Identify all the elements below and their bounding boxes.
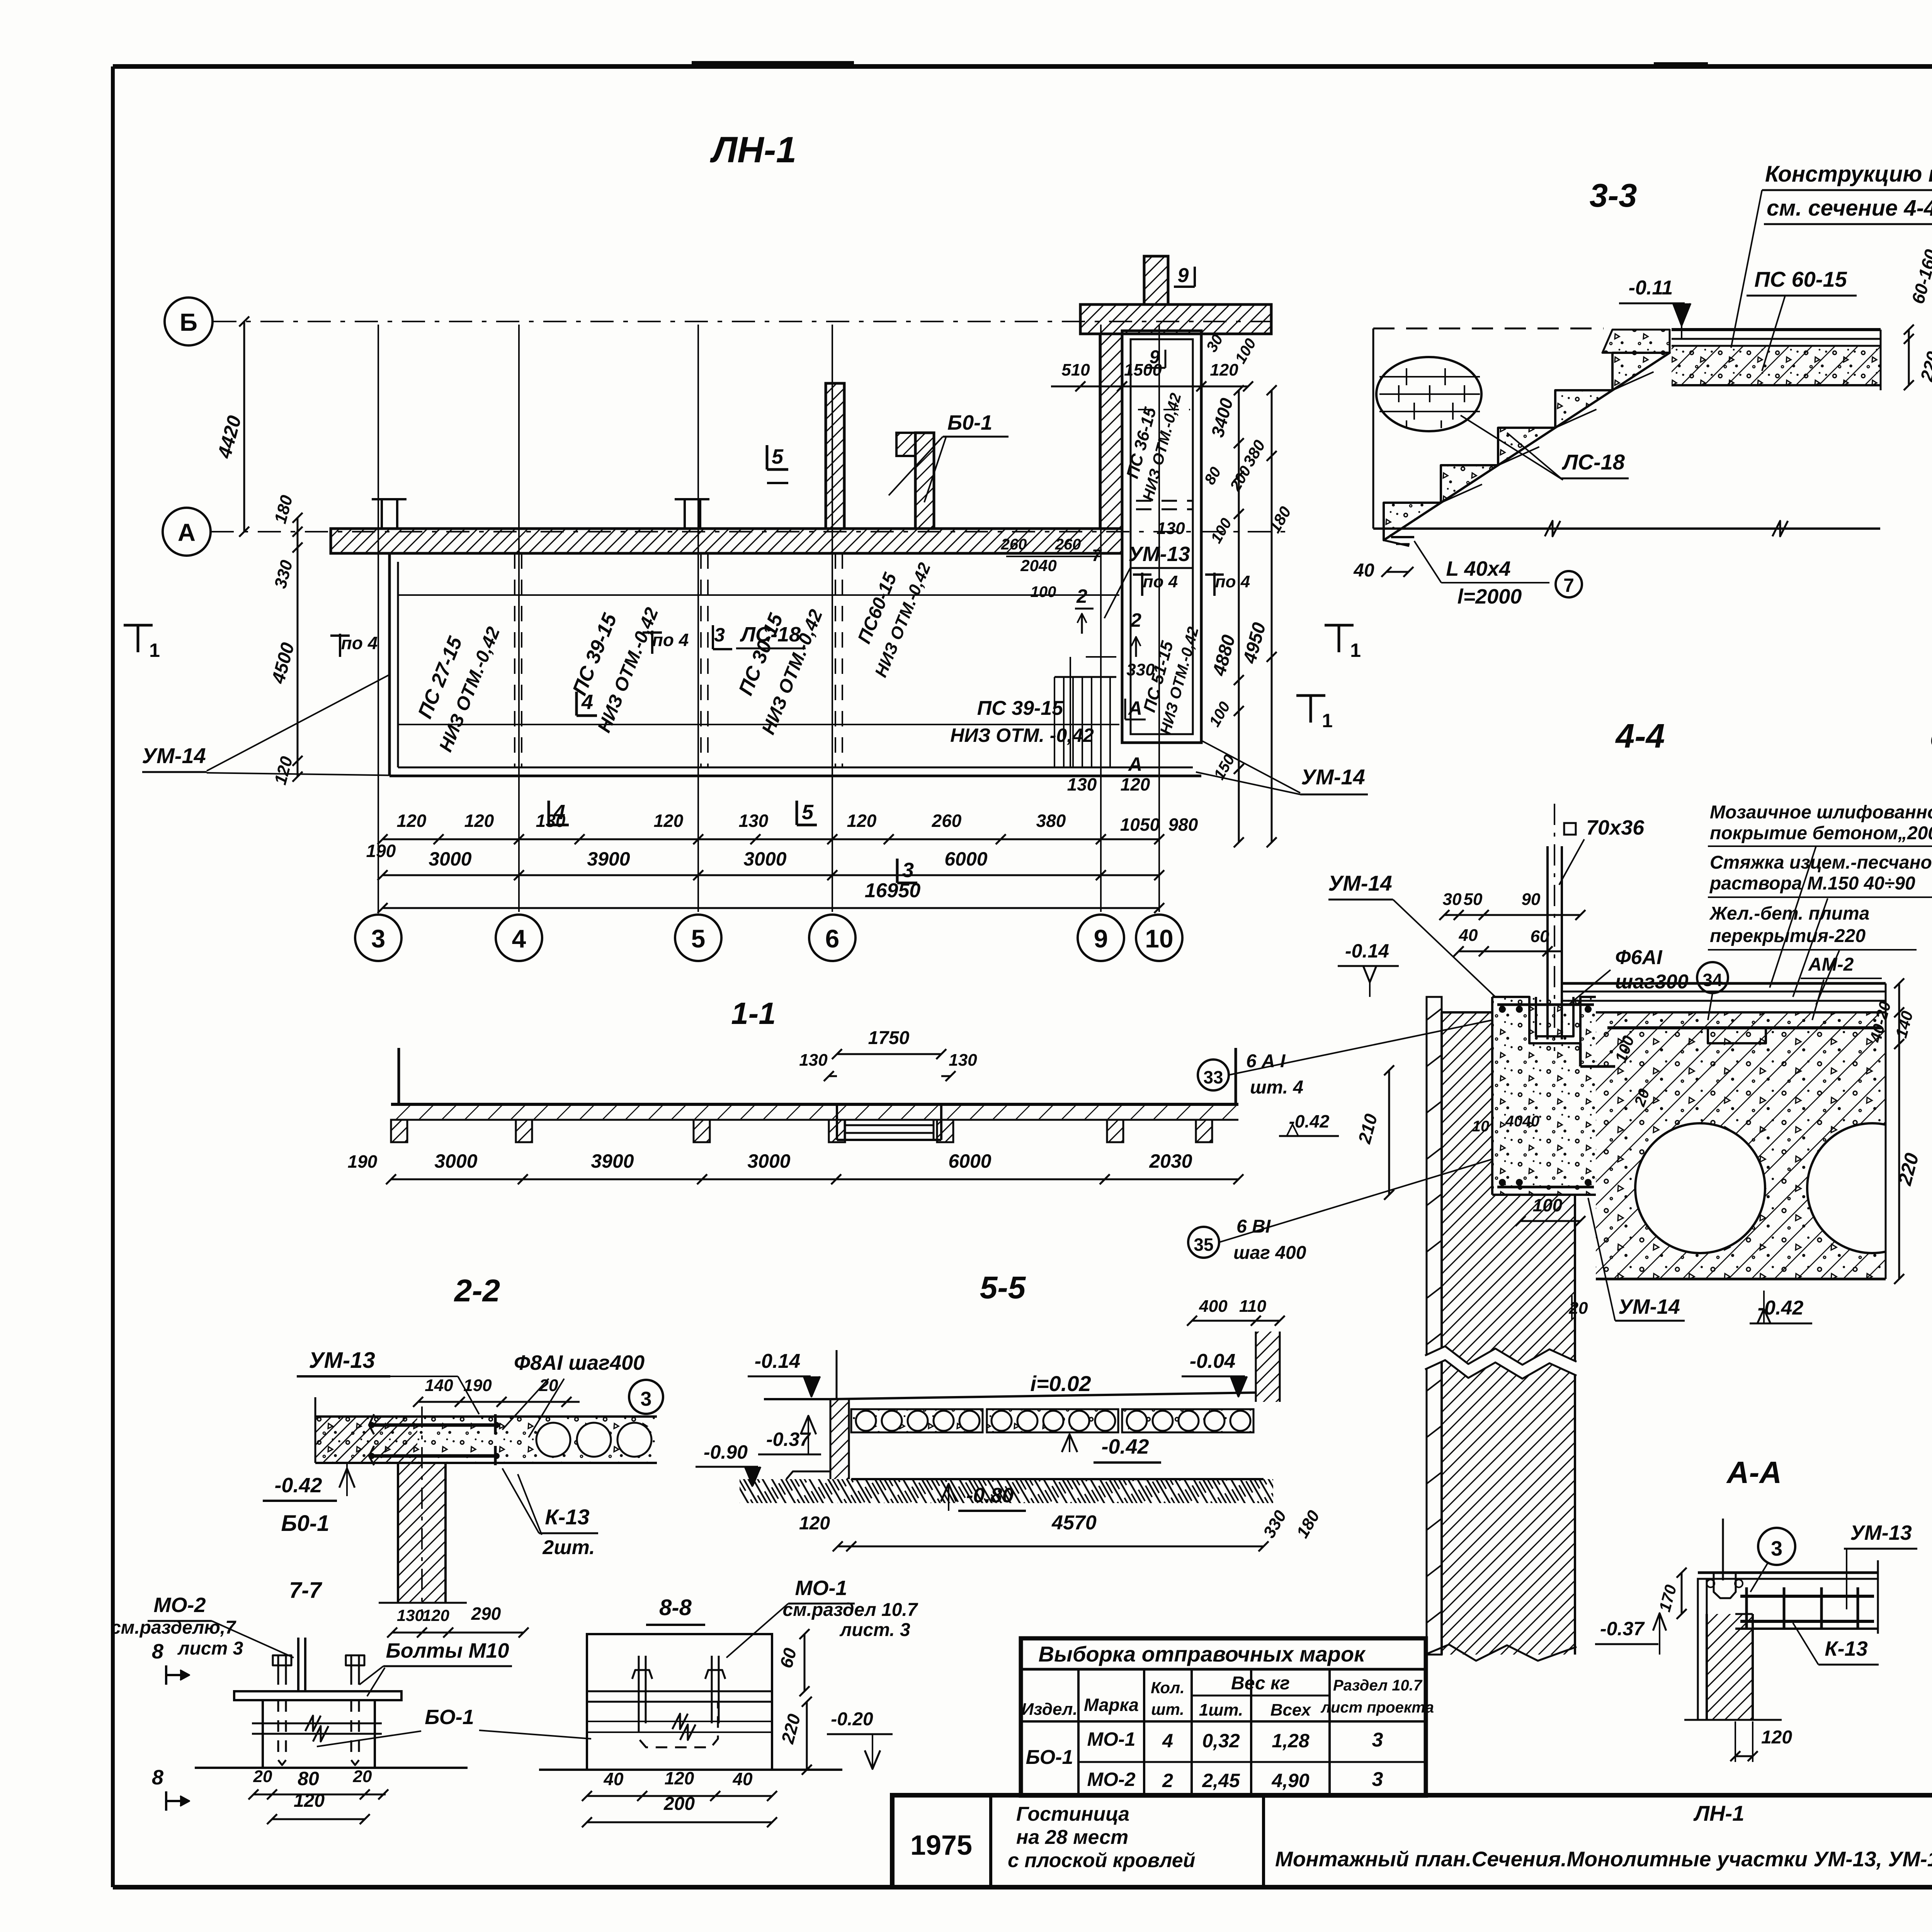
svg-text:40: 40	[1459, 926, 1478, 945]
svg-text:120: 120	[422, 1606, 449, 1624]
3-3 right vertical dims 60-160 and 220	[1908, 330, 1910, 385]
svg-text:130: 130	[1156, 519, 1185, 538]
svg-text:190: 190	[366, 841, 396, 861]
plan left dims 180 330 4500 120	[297, 518, 299, 777]
svg-text:260: 260	[1001, 536, 1027, 553]
svg-text:2-2: 2-2	[454, 1273, 500, 1308]
svg-text:120: 120	[1121, 774, 1150, 794]
svg-text:120: 120	[654, 811, 684, 831]
svg-text:Издел.: Издел.	[1021, 1700, 1077, 1719]
svg-text:7: 7	[1563, 575, 1574, 596]
5-5 floor top line	[764, 1398, 830, 1400]
svg-text:К-13: К-13	[1825, 1637, 1867, 1660]
plan: axis line А	[211, 531, 1287, 532]
border frame	[113, 64, 1932, 69]
plan: stair bay inner box	[1122, 331, 1201, 743]
svg-text:120: 120	[665, 1768, 694, 1788]
detail 8-8 U anchor dashed	[639, 1702, 718, 1747]
svg-text:90: 90	[1522, 890, 1541, 909]
svg-text:с плоской кровлей: с плоской кровлей	[1008, 1849, 1195, 1872]
svg-text:-0.37: -0.37	[766, 1429, 811, 1450]
svg-text:лист. 3: лист. 3	[839, 1620, 910, 1640]
svg-text:3000: 3000	[743, 848, 786, 870]
plan: panel edge dashed lines	[514, 553, 515, 767]
svg-text:60: 60	[1531, 927, 1549, 946]
svg-text:120: 120	[1761, 1727, 1792, 1748]
svg-text:ЛС-18: ЛС-18	[1561, 450, 1625, 474]
4-4 floor layers above slab	[1562, 982, 1886, 985]
4-4 axis line of post	[1554, 804, 1555, 1051]
4-4 square post symbol 70x36	[1564, 823, 1576, 835]
3-3 bottom left: L 40x4 l=2000 and mark 7	[1391, 536, 1414, 538]
svg-text:L 40x4: L 40x4	[1446, 557, 1510, 580]
svg-text:ЛН-1: ЛН-1	[710, 129, 796, 170]
3-3 wall outline	[1373, 328, 1604, 330]
svg-text:Б: Б	[180, 308, 197, 336]
svg-text:20: 20	[353, 1767, 372, 1786]
svg-text:2,45: 2,45	[1202, 1770, 1240, 1791]
svg-text:20: 20	[539, 1376, 558, 1395]
detail 8-8 box	[587, 1634, 772, 1770]
plan: wall band on axis А (hatched)	[331, 529, 1122, 553]
svg-text:34: 34	[1702, 970, 1723, 990]
plan: wall band axis Б of stair bay	[1080, 304, 1271, 334]
svg-text:130: 130	[397, 1606, 424, 1624]
svg-text:Конструкцию пола: Конструкцию пола	[1765, 162, 1932, 187]
svg-text:1: 1	[1322, 710, 1333, 731]
svg-text:-0.14: -0.14	[755, 1350, 801, 1372]
svg-text:40: 40	[732, 1769, 753, 1789]
svg-text:70х36: 70х36	[1586, 816, 1645, 839]
plan: axis circle А	[163, 508, 211, 556]
plan: room outline double lines	[388, 553, 391, 776]
svg-text:290: 290	[471, 1604, 501, 1624]
svg-text:120: 120	[847, 811, 877, 831]
4-4 railing post	[1546, 846, 1549, 1039]
svg-text:3000: 3000	[429, 848, 471, 870]
svg-text:120: 120	[799, 1513, 830, 1534]
4-4 brick wall below	[1442, 1195, 1575, 1655]
detail 8-8 baseline	[539, 1769, 842, 1771]
svg-text:1шт.: 1шт.	[1199, 1701, 1243, 1719]
svg-text:МО-1: МО-1	[1087, 1728, 1136, 1750]
svg-text:шаг300: шаг300	[1615, 971, 1689, 993]
svg-text:МО-2: МО-2	[1087, 1769, 1136, 1790]
1-1 end posts	[398, 1048, 400, 1104]
svg-text:1: 1	[1350, 639, 1361, 661]
plan: chimney stub on axis 10	[1144, 256, 1168, 304]
svg-text:2шт.: 2шт.	[542, 1536, 595, 1559]
4-4 right dims 40-20 140 220	[1898, 983, 1900, 1279]
svg-text:Б0-1: Б0-1	[947, 411, 992, 434]
svg-text:УМ-14: УМ-14	[1328, 871, 1392, 895]
svg-text:-0.42: -0.42	[274, 1474, 322, 1497]
svg-text:Б0-1: Б0-1	[281, 1511, 330, 1536]
svg-text:Мозаичное шлифованное: Мозаичное шлифованное	[1710, 802, 1932, 823]
svg-text:ПС 60-15: ПС 60-15	[1754, 267, 1847, 291]
detail 7-7 plate	[234, 1691, 401, 1700]
svg-text:8: 8	[152, 1766, 163, 1789]
svg-text:-0.20: -0.20	[831, 1709, 873, 1730]
svg-text:шт.: шт.	[1151, 1700, 1184, 1718]
svg-text:80: 80	[298, 1768, 319, 1789]
svg-text:1050: 1050	[1120, 815, 1160, 835]
svg-text:на 28 мест: на 28 мест	[1016, 1826, 1128, 1849]
svg-text:Выборка отправочных марок: Выборка отправочных марок	[1039, 1642, 1366, 1666]
5-5 right wall	[1256, 1332, 1280, 1402]
svg-text:i=0.02: i=0.02	[1030, 1371, 1091, 1396]
svg-text:УМ-14: УМ-14	[142, 743, 206, 768]
svg-text:4: 4	[581, 690, 593, 714]
svg-text:260: 260	[1055, 536, 1081, 553]
svg-text:шаг 400: шаг 400	[1233, 1243, 1306, 1263]
svg-text:3-3: 3-3	[1590, 177, 1637, 214]
svg-text:4: 4	[553, 801, 565, 824]
svg-text:20: 20	[253, 1767, 272, 1786]
svg-text:30: 30	[1443, 890, 1462, 909]
svg-text:Монтажный план.Сечения.Монолит: Монтажный план.Сечения.Монолитные участк…	[1275, 1847, 1932, 1871]
svg-text:100: 100	[1031, 583, 1056, 600]
svg-text:130: 130	[949, 1051, 977, 1070]
svg-text:10: 10	[1145, 924, 1173, 953]
svg-text:раствора М.150 40÷90: раствора М.150 40÷90	[1709, 873, 1915, 894]
svg-text:А: А	[1128, 753, 1142, 775]
T1 mark near 4-4	[1296, 694, 1325, 697]
svg-text:190: 190	[463, 1376, 492, 1395]
3-3 landing top piece	[1602, 330, 1670, 353]
svg-text:0,32: 0,32	[1202, 1730, 1240, 1752]
plan: panel joint lines	[398, 594, 1119, 596]
detail 8-8 bolts	[638, 1656, 640, 1723]
detail 7-7 bolts	[277, 1655, 279, 1685]
svg-text:2040: 2040	[1020, 556, 1056, 575]
А-А anchor slot	[1714, 1573, 1736, 1598]
svg-text:5: 5	[772, 445, 784, 468]
svg-text:МО-2: МО-2	[154, 1594, 206, 1617]
svg-text:1-1: 1-1	[731, 996, 776, 1031]
plan T1 section marks left and right	[124, 624, 153, 627]
plan bottom dim total 16950	[383, 907, 1159, 909]
2-2 level -0.42	[339, 1468, 355, 1488]
svg-text:980: 980	[1168, 815, 1198, 835]
svg-text:330: 330	[1126, 660, 1155, 679]
svg-text:УМ-13: УМ-13	[309, 1348, 375, 1373]
svg-text:3: 3	[1372, 1729, 1383, 1751]
svg-text:1750: 1750	[868, 1028, 910, 1048]
svg-text:ЛС-18: ЛС-18	[740, 623, 801, 646]
svg-text:БО-1: БО-1	[425, 1706, 474, 1729]
2-2 hollow cores	[536, 1423, 570, 1457]
svg-text:40: 40	[1353, 560, 1374, 581]
1-1 slab band	[391, 1104, 1238, 1120]
svg-text:-0.37: -0.37	[1600, 1618, 1645, 1639]
svg-text:БО-1: БО-1	[1026, 1746, 1073, 1769]
svg-text:Раздел 10.7: Раздел 10.7	[1333, 1677, 1423, 1694]
svg-text:см. сечение 4-4: см. сечение 4-4	[1767, 196, 1932, 221]
svg-text:Болты М10: Болты М10	[386, 1639, 509, 1662]
svg-text:-0.11: -0.11	[1629, 277, 1673, 299]
svg-text:УМ-14: УМ-14	[1618, 1295, 1680, 1318]
svg-text:l=2000: l=2000	[1458, 585, 1522, 608]
svg-text:7: 7	[1092, 546, 1102, 565]
svg-text:9: 9	[1150, 347, 1160, 367]
svg-text:ЛН-1: ЛН-1	[1693, 1801, 1745, 1825]
svg-text:4-4: 4-4	[1615, 717, 1665, 755]
svg-text:5-5: 5-5	[980, 1270, 1026, 1305]
svg-text:УМ-14: УМ-14	[1301, 765, 1365, 789]
svg-text:4: 4	[512, 924, 526, 953]
svg-text:см.разделю,7: см.разделю,7	[111, 1617, 236, 1638]
svg-text:3: 3	[1771, 1537, 1782, 1560]
svg-text:120: 120	[464, 811, 494, 831]
4-4 AM-2 mesh line inside slab	[1607, 1026, 1882, 1029]
svg-text:МО-1: МО-1	[795, 1577, 847, 1600]
svg-text:40: 40	[1505, 1113, 1523, 1130]
svg-text:260: 260	[932, 811, 962, 831]
plan: axis line Б	[213, 321, 1271, 322]
svg-text:9: 9	[1094, 924, 1108, 953]
detail 7-7 baseline	[195, 1767, 468, 1769]
svg-text:8: 8	[152, 1640, 163, 1663]
svg-text:НИЗ ОТМ. -0,42: НИЗ ОТМ. -0,42	[950, 724, 1094, 746]
svg-text:380: 380	[1036, 811, 1066, 831]
А-А wall below	[1707, 1614, 1753, 1720]
svg-text:А: А	[178, 519, 196, 546]
plan: small pier with step	[915, 433, 934, 529]
4-4 top dims 30 50 90 / 40 60	[1444, 914, 1580, 916]
1-1 supports	[391, 1120, 407, 1142]
plan: pilaster T-marks on wall А	[372, 498, 406, 500]
svg-text:3900: 3900	[587, 848, 630, 870]
2-2 K-13 cage	[371, 1423, 498, 1427]
svg-text:перекрытия-220: перекрытия-220	[1710, 926, 1866, 946]
svg-text:6000: 6000	[944, 848, 987, 870]
svg-text:-0.42: -0.42	[1101, 1435, 1149, 1458]
svg-text:3: 3	[371, 924, 386, 953]
plan: grid circles 3 4 5 6 9 10	[355, 915, 401, 961]
svg-text:120: 120	[397, 811, 427, 831]
svg-text:130: 130	[799, 1051, 828, 1070]
3-3 landing floor slab	[1672, 328, 1881, 331]
svg-text:Вес кг: Вес кг	[1231, 1673, 1290, 1694]
svg-text:200: 200	[663, 1794, 695, 1814]
plan: axis circle Б	[165, 298, 213, 345]
А-А axis line	[1722, 1519, 1724, 1580]
4-4 wall break marks	[1425, 1346, 1577, 1379]
svg-text:3000: 3000	[434, 1150, 477, 1172]
svg-text:2: 2	[1130, 609, 1141, 631]
svg-text:6: 6	[825, 924, 840, 953]
svg-text:ПС 39-15: ПС 39-15	[977, 697, 1063, 719]
svg-text:Гостиница: Гостиница	[1016, 1803, 1129, 1825]
svg-text:6000: 6000	[948, 1150, 991, 1172]
svg-text:Ф6АІ: Ф6АІ	[1615, 946, 1663, 969]
svg-text:33: 33	[1203, 1067, 1223, 1087]
svg-text:2: 2	[1076, 585, 1087, 607]
4-4 wall upper part hatched	[1442, 1012, 1492, 1195]
svg-text:-0.04: -0.04	[1190, 1350, 1236, 1372]
svg-text:покрытие бетоном„200-20: покрытие бетоном„200-20	[1710, 823, 1932, 844]
svg-text:40: 40	[603, 1769, 624, 1789]
svg-text:5: 5	[802, 801, 814, 824]
svg-text:3: 3	[902, 859, 914, 882]
svg-text:2030: 2030	[1149, 1150, 1192, 1172]
svg-text:1975: 1975	[910, 1830, 972, 1861]
svg-text:УМ-13: УМ-13	[1128, 543, 1190, 566]
plan: stair flight in plan	[1054, 676, 1116, 678]
svg-text:190: 190	[348, 1151, 378, 1172]
svg-text:Жел.-бет. плита: Жел.-бет. плита	[1709, 903, 1869, 924]
svg-text:8-8: 8-8	[659, 1595, 692, 1620]
plan bottom dim row small	[383, 838, 1159, 840]
svg-text:3: 3	[1372, 1768, 1383, 1791]
plan top-right dims 510 1500 120	[1051, 386, 1248, 388]
svg-text:Всех: Всех	[1270, 1701, 1311, 1719]
svg-text:5: 5	[691, 924, 706, 953]
svg-text:110: 110	[1239, 1297, 1267, 1316]
scan marks on top border	[692, 61, 854, 67]
svg-text:Ф8АІ шаг400: Ф8АІ шаг400	[514, 1351, 645, 1374]
3-3 stair steps ЛС-18	[1384, 353, 1670, 540]
svg-text:2: 2	[1162, 1770, 1173, 1791]
svg-text:510: 510	[1061, 361, 1090, 379]
title block frame	[892, 1795, 1932, 1887]
svg-text:6 ВІ: 6 ВІ	[1236, 1216, 1271, 1237]
svg-text:130: 130	[1067, 774, 1097, 794]
А-А circled mark 3	[1758, 1528, 1795, 1565]
plan left dim 4420	[243, 321, 245, 532]
svg-text:40: 40	[1522, 1113, 1540, 1130]
svg-text:-0.80: -0.80	[966, 1484, 1014, 1507]
svg-text:4: 4	[1162, 1730, 1173, 1752]
svg-text:3000: 3000	[747, 1150, 790, 1172]
svg-text:4570: 4570	[1051, 1512, 1097, 1534]
svg-text:А-А: А-А	[1726, 1455, 1782, 1490]
3-3 stair slope line	[1384, 540, 1409, 546]
svg-text:35: 35	[1194, 1235, 1213, 1255]
svg-text:-0.14: -0.14	[1345, 940, 1389, 962]
svg-text:шт. 4: шт. 4	[1250, 1077, 1303, 1098]
5-5 hollow core panels	[851, 1409, 983, 1432]
1-1 stair opening with steps	[836, 1104, 838, 1140]
2-2 slab band	[315, 1417, 417, 1463]
svg-text:3: 3	[714, 624, 725, 646]
svg-text:120: 120	[294, 1791, 325, 1811]
plan: pier on axis 6	[826, 383, 844, 529]
svg-text:3900: 3900	[591, 1150, 634, 1172]
svg-text:Стяжка изцем.-песчаного: Стяжка изцем.-песчаного	[1710, 852, 1932, 873]
svg-text:лист проекта: лист проекта	[1320, 1699, 1434, 1716]
svg-text:9: 9	[1178, 264, 1189, 287]
svg-text:УМ-13: УМ-13	[1850, 1521, 1912, 1544]
svg-text:Марка: Марка	[1084, 1695, 1139, 1715]
3-3 brick wall ellipse	[1376, 357, 1481, 431]
svg-text:120: 120	[1210, 361, 1238, 379]
svg-text:см.раздел 10.7: см.раздел 10.7	[783, 1600, 918, 1620]
svg-text:А: А	[1128, 697, 1142, 719]
svg-text:4,90: 4,90	[1271, 1770, 1310, 1791]
svg-text:1,28: 1,28	[1272, 1730, 1310, 1752]
5-5 left wall	[830, 1399, 849, 1479]
4-4 monolith rebar dots rows	[1499, 1006, 1506, 1013]
svg-text:7-7: 7-7	[289, 1578, 323, 1603]
svg-text:-0.90: -0.90	[704, 1441, 748, 1463]
plan bottom dim row spans	[383, 874, 1159, 876]
2-2 column below	[398, 1463, 446, 1603]
svg-text:400: 400	[1199, 1297, 1228, 1316]
svg-text:лист 3: лист 3	[177, 1638, 243, 1659]
plan: stair bay west wall	[1100, 334, 1122, 529]
svg-text:130: 130	[739, 811, 769, 831]
5-5 bottom line and ground	[851, 1478, 1264, 1480]
svg-text:3: 3	[641, 1388, 652, 1410]
svg-text:1: 1	[149, 639, 160, 661]
4-4 monolith УМ-13 with post pocket	[1492, 997, 1596, 1195]
svg-text:Спецификация арматуры на монол: Спецификация арматуры на монолитн. плиту	[1930, 727, 1932, 753]
plan: column grid lines	[378, 325, 379, 912]
4-4 left rebar marks 33/35	[1198, 1060, 1229, 1090]
svg-text:50: 50	[1464, 890, 1483, 909]
А-А slab with К-13	[1698, 1571, 1878, 1574]
svg-text:Кол.: Кол.	[1151, 1679, 1185, 1697]
svg-text:140: 140	[425, 1376, 453, 1395]
svg-text:К-13: К-13	[545, 1505, 589, 1529]
shipping marks table Выборка отправочных марок	[1021, 1638, 1426, 1796]
svg-text:6 А І: 6 А І	[1246, 1051, 1286, 1071]
